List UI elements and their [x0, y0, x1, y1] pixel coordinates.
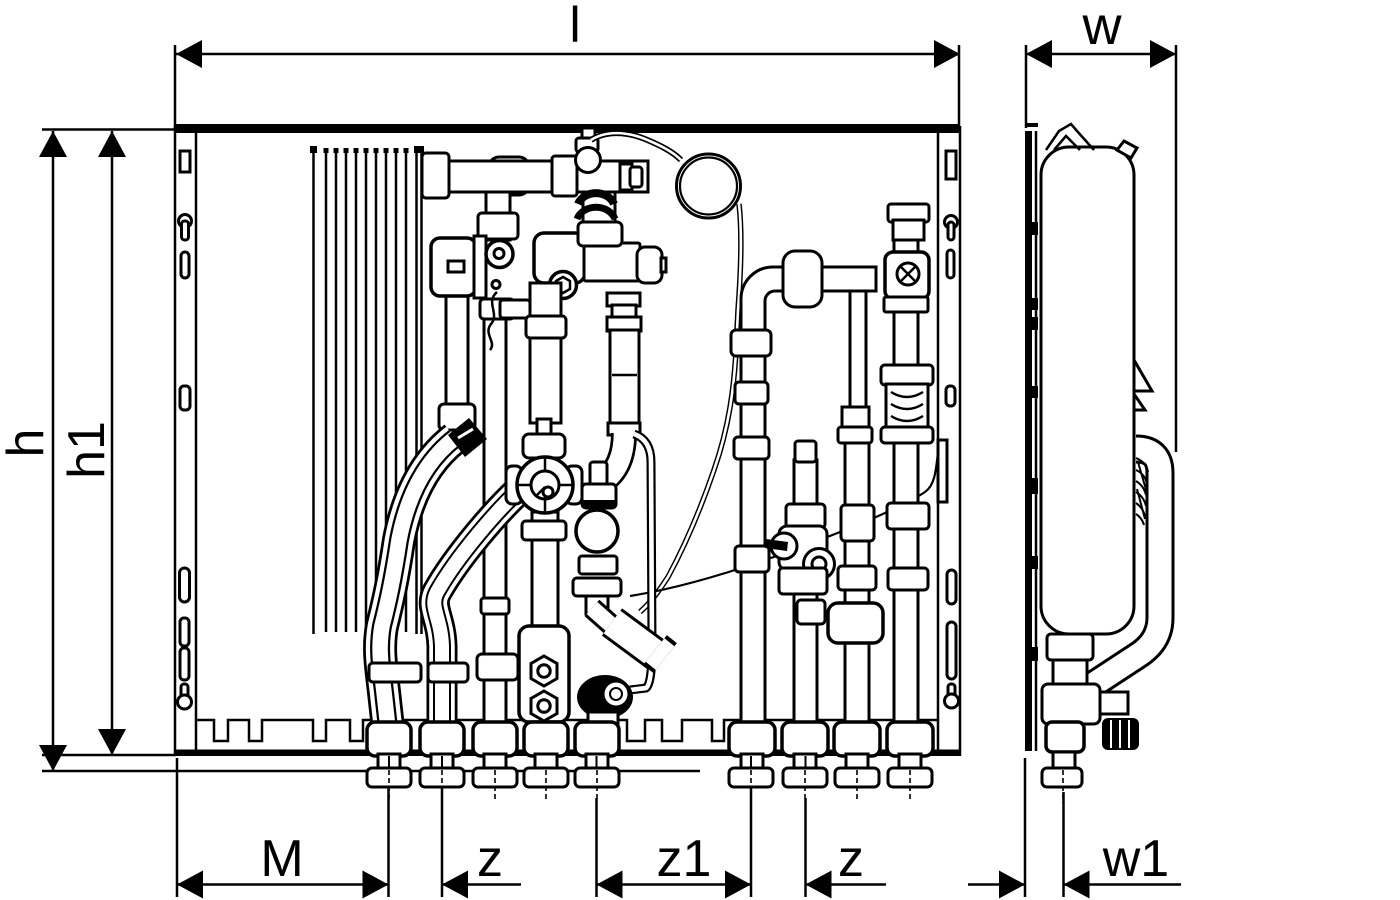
svg-text:l: l — [569, 0, 580, 53]
svg-text:z: z — [477, 830, 503, 888]
svg-text:z: z — [838, 830, 864, 888]
svg-text:z1: z1 — [657, 830, 712, 888]
svg-text:h1: h1 — [58, 421, 116, 479]
svg-text:w: w — [1082, 0, 1123, 56]
svg-text:h: h — [0, 429, 55, 458]
svg-text:w1: w1 — [1102, 830, 1169, 888]
svg-text:M: M — [260, 830, 303, 888]
